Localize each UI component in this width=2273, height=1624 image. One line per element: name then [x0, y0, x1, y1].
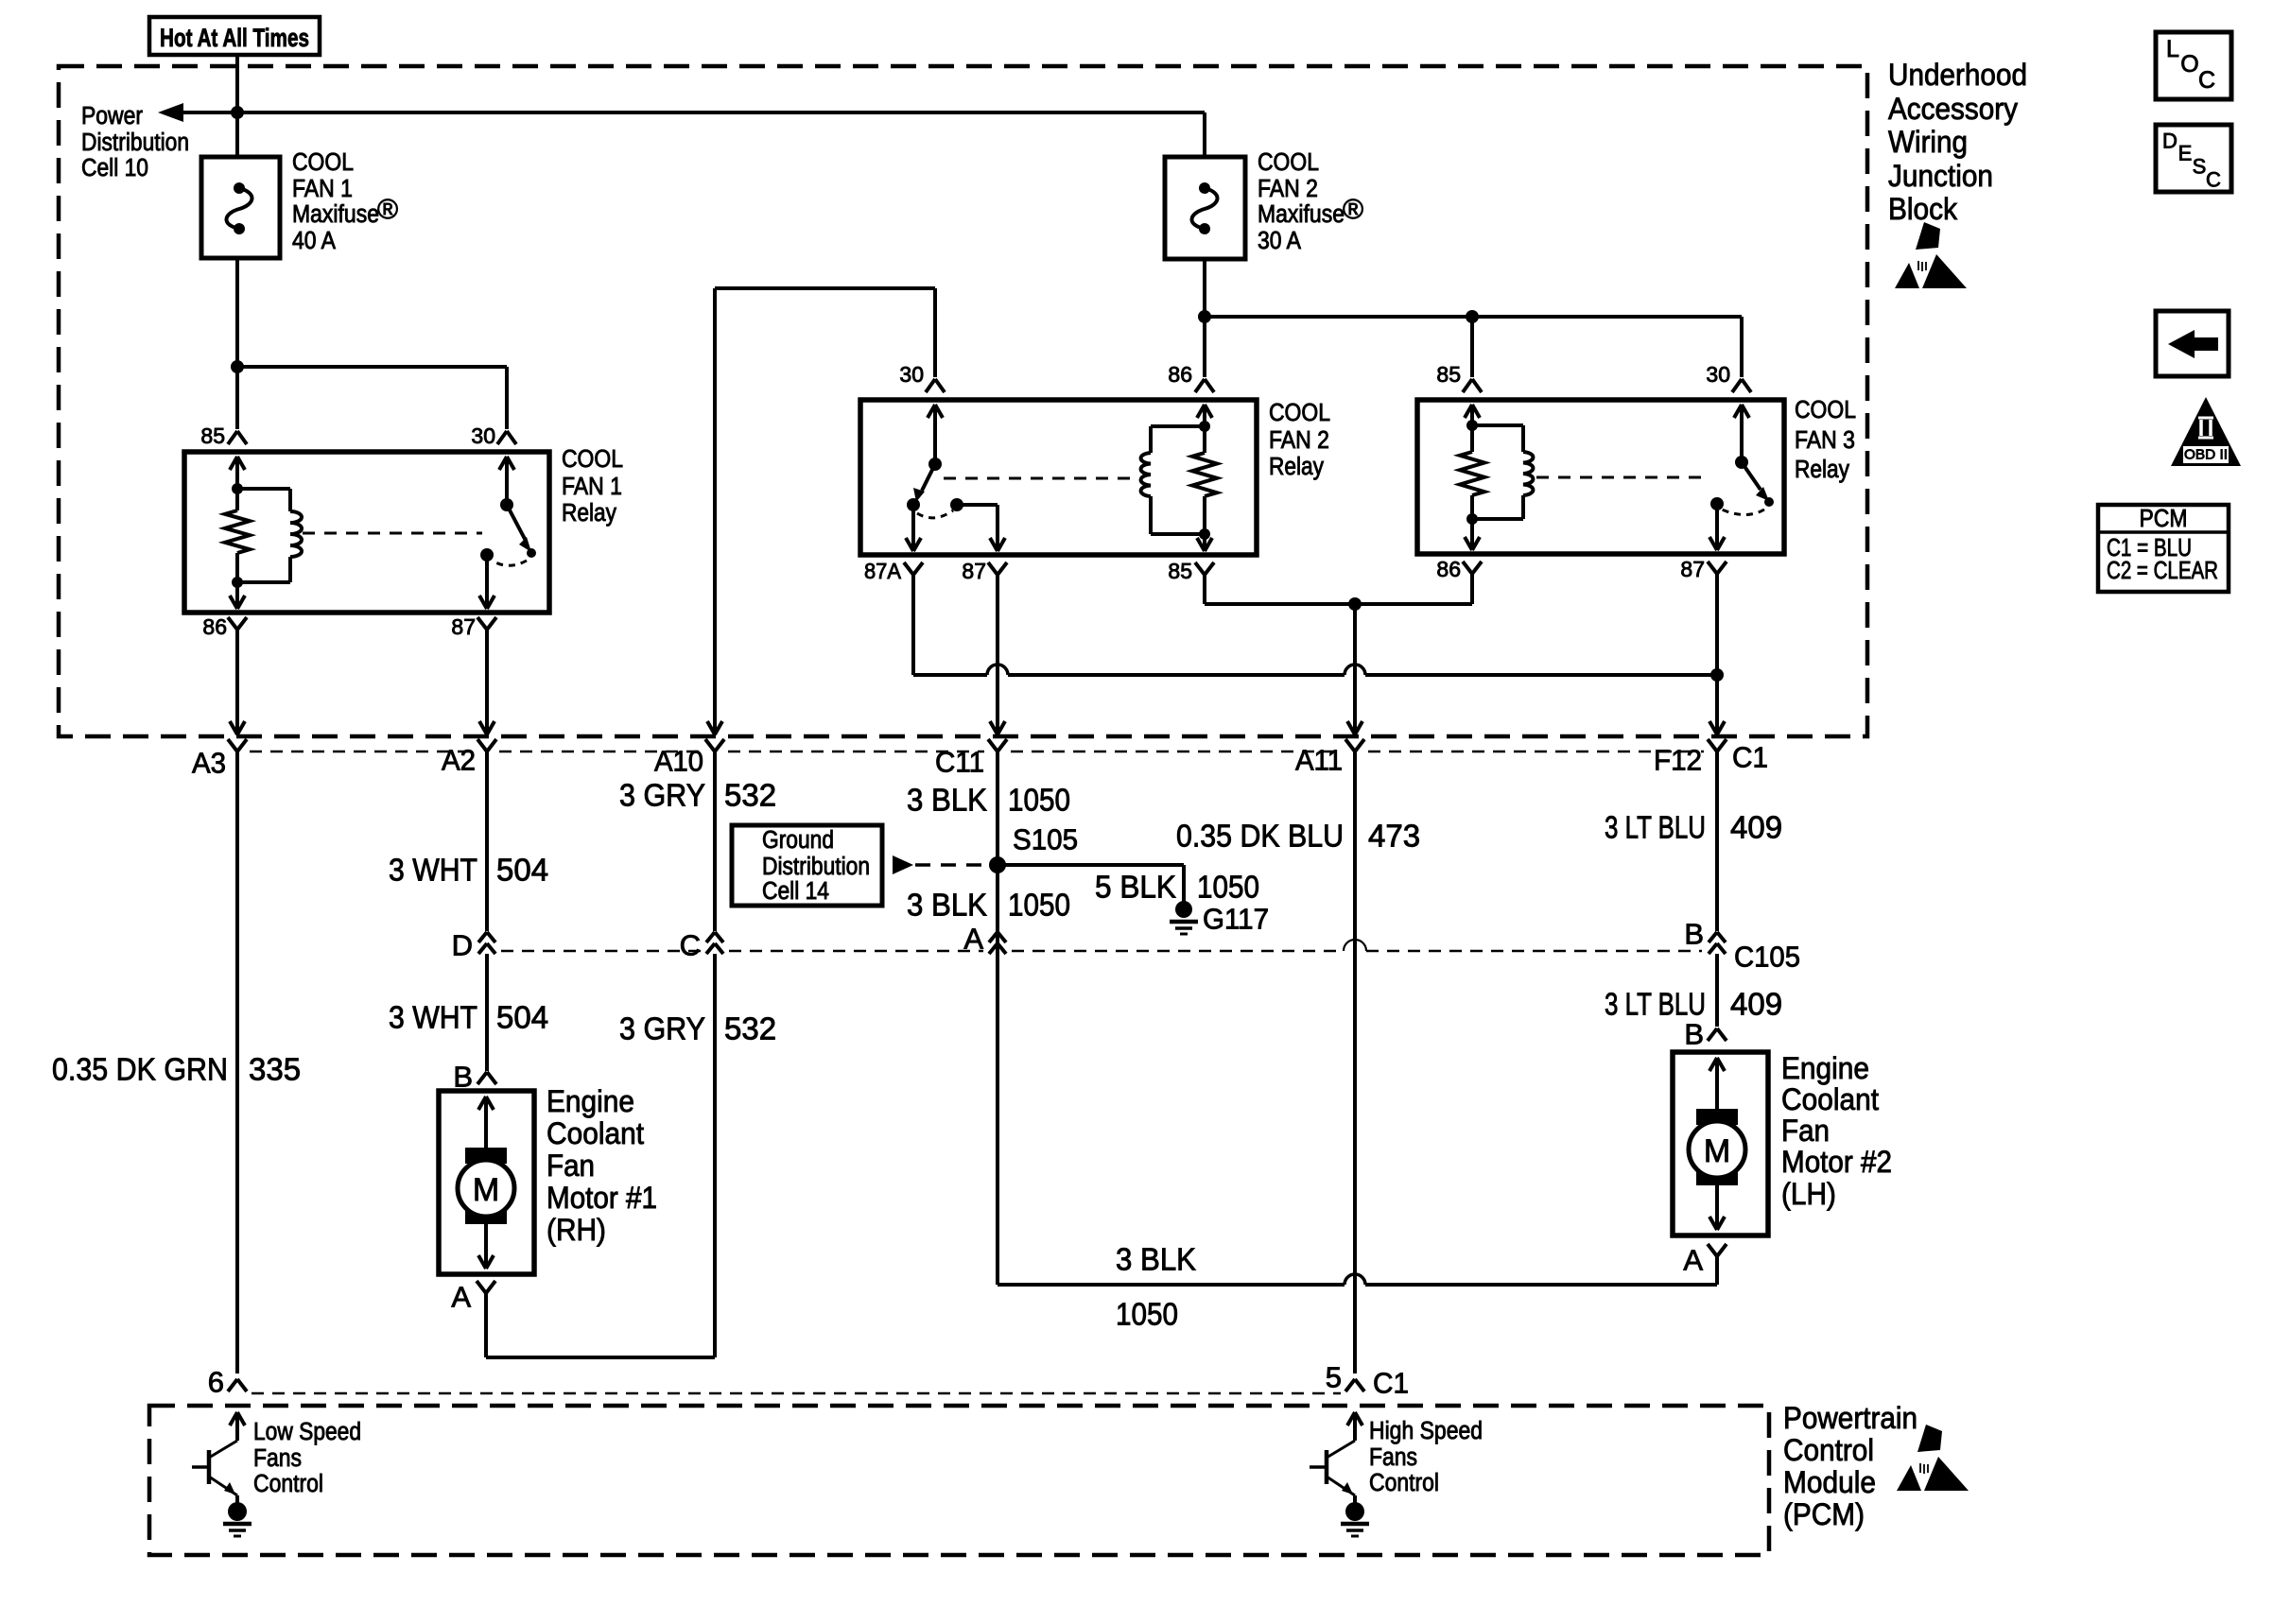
node: power distribution tap junction: [231, 106, 244, 119]
svg-text:Control: Control: [253, 1471, 323, 1497]
wire: fan 1 return line down to A10: [707, 288, 722, 734]
svg-text:®: ®: [1343, 195, 1363, 226]
relay K1 switch armature from pin 30: [494, 457, 536, 565]
svg-text:(LH): (LH): [1781, 1177, 1836, 1211]
label: Low Speed Fans Control: [253, 1419, 361, 1497]
svg-text:Cell 10: Cell 10: [81, 155, 148, 181]
icon: LOC reference box: [2156, 32, 2231, 99]
svg-text:L: L: [2166, 36, 2179, 62]
relay K3 contact to pin 87: [1709, 497, 1725, 550]
svg-text:532: 532: [724, 778, 776, 813]
svg-text:3 BLK: 3 BLK: [907, 888, 987, 923]
svg-text:504: 504: [496, 853, 548, 888]
relay K3 coil-to-armature dashed link: [1536, 476, 1707, 479]
svg-text:(PCM): (PCM): [1783, 1497, 1865, 1531]
svg-text:PCM: PCM: [2140, 506, 2188, 532]
icon: OBD II triangle: [2171, 397, 2241, 466]
svg-text:M: M: [1704, 1133, 1730, 1169]
dashed reference arrow to splice S105: [893, 855, 987, 874]
wire: feed to cool fan 2 maxifuse: [237, 112, 1205, 157]
wire: branch arrow to power distribution cell 10: [158, 103, 237, 122]
wire: 3 BLK 1050 ground leg from C11 through S105: [996, 752, 999, 1285]
pin 87A of relay K2: [864, 559, 923, 583]
relay K3: COOL FAN 3 Relay box: [1417, 400, 1784, 554]
wire: 3 GRY 532 from A10 to connector C: [713, 752, 717, 931]
svg-text:Fan: Fan: [1781, 1114, 1830, 1148]
splice S105: [989, 823, 1078, 874]
svg-text:Ground: Ground: [762, 827, 834, 854]
transistor Q2: high speed fans control driver: [1310, 1412, 1362, 1503]
svg-text:A: A: [1683, 1244, 1703, 1277]
wire: relay 1 pin 86 down to A3: [230, 630, 245, 734]
transistor Q1: low speed fans control driver: [192, 1412, 245, 1503]
connector pin A3: [192, 739, 247, 780]
power label: Hot At All Times: [149, 17, 320, 55]
relay K1 coil resistor branch: [225, 457, 250, 588]
svg-text:COOL: COOL: [292, 149, 354, 176]
svg-text:335: 335: [249, 1052, 301, 1087]
svg-text:30: 30: [471, 423, 495, 448]
fuse F2: COOL FAN 2 Maxifuse 30 A: [1165, 157, 1245, 259]
inline connector C: [680, 929, 723, 962]
pin 87 of relay K2: [962, 559, 1007, 583]
wire: high speed line from tap down to A11: [1347, 604, 1362, 734]
svg-text:COOL: COOL: [1258, 149, 1319, 176]
relay K2 contact 87A: [906, 498, 921, 551]
svg-text:A: A: [451, 1281, 471, 1314]
wire: 3 BLK 1050 rail from S105 leg to motor 2 pin A: [998, 1274, 1717, 1285]
label: Powertrain Control Module (PCM): [1783, 1401, 1917, 1531]
svg-text:S105: S105: [1013, 823, 1078, 856]
wire: 5 BLK 1050 branch to ground G117: [998, 865, 1184, 902]
pin 86 of relay K2: [1168, 362, 1214, 392]
label: High Speed Fans Control: [1369, 1418, 1483, 1496]
svg-text:6: 6: [208, 1366, 224, 1399]
connector pin A11: [1295, 739, 1364, 777]
wire: 3 GRY 532 from C down around to motor 1 pin A: [486, 954, 715, 1357]
svg-text:Distribution: Distribution: [81, 130, 189, 156]
pin 85 of relay K1: [200, 423, 247, 448]
node: splice feeding relay 1 pin 30: [231, 360, 244, 373]
svg-text:S: S: [2193, 155, 2207, 179]
svg-text:(RH): (RH): [547, 1213, 606, 1247]
label: Power Distribution Cell 10: [81, 103, 189, 181]
svg-text:C11: C11: [935, 746, 984, 779]
wire label: 5 BLK 1050: [1095, 870, 1259, 905]
connector pin B / C105: [1684, 918, 1800, 974]
label: Underhood Accessory Wiring Junction Block: [1888, 58, 2027, 226]
svg-text:High Speed: High Speed: [1369, 1418, 1483, 1444]
wire: 3 WHT 504 from A2 to connector D: [485, 752, 489, 931]
wire: branch to relay 1 pin 30: [237, 367, 507, 429]
relay K3 coil: [1472, 425, 1533, 519]
svg-text:COOL: COOL: [1269, 400, 1330, 426]
svg-text:D: D: [452, 929, 473, 962]
wire label: 3 BLK 1050 upper: [907, 783, 1070, 818]
relay K1 coil: [237, 489, 302, 582]
svg-text:1050: 1050: [1008, 783, 1070, 818]
wire: 3 WHT 504 from D to motor 1 pin B: [485, 954, 489, 1071]
svg-text:409: 409: [1730, 987, 1782, 1022]
svg-text:A3: A3: [192, 747, 226, 780]
legend: PCM connector colors: [2098, 505, 2229, 592]
wire label: 3 GRY 532 upper: [619, 778, 776, 813]
svg-text:40 A: 40 A: [292, 228, 336, 254]
svg-text:FAN 1: FAN 1: [562, 474, 622, 500]
svg-text:Control: Control: [1369, 1470, 1439, 1496]
svg-text:Relay: Relay: [1795, 457, 1849, 483]
connector pin A of motor 1: [451, 1281, 495, 1314]
pin 5 of PCM connector C1: [1326, 1361, 1409, 1400]
connector pin A10: [654, 739, 724, 778]
svg-text:86: 86: [1168, 362, 1192, 387]
motor M1: Engine Coolant Fan Motor 1: [439, 1091, 534, 1274]
wire label: 3 LT BLU 409 lower: [1605, 987, 1782, 1022]
pin 30 of relay K1: [471, 423, 516, 448]
wire: relay 2 87A rail over to relay 3 pin 87: [913, 574, 1717, 675]
connector pin A2: [442, 739, 496, 777]
svg-text:FAN 2: FAN 2: [1258, 176, 1318, 202]
connector pin C11: [935, 739, 1007, 779]
svg-text:COOL: COOL: [562, 446, 623, 473]
svg-text:3 LT BLU: 3 LT BLU: [1605, 987, 1706, 1022]
relay K2 switch armature from pin 30: [913, 405, 953, 518]
wire label: 3 BLK 1050 rail: [1116, 1242, 1196, 1332]
wire: 3 LT BLU 409 from C105 to motor 2 pin B: [1715, 954, 1719, 1027]
wire: 0.35 DK BLU 473 high speed control: [1353, 752, 1357, 1373]
svg-text:Accessory: Accessory: [1888, 92, 2019, 126]
svg-text:87: 87: [1680, 557, 1705, 581]
ground: PCM low speed driver emitter: [223, 1502, 252, 1536]
svg-text:Junction: Junction: [1888, 159, 1993, 193]
svg-text:Powertrain: Powertrain: [1783, 1401, 1917, 1435]
PCM connector row dashes: [252, 1392, 1341, 1395]
relay K3 switch armature from pin 30: [1722, 405, 1774, 515]
node: splice below fuse 2: [1198, 310, 1211, 323]
label: motor M2 name: [1781, 1051, 1892, 1211]
label: fuse F1 name and rating: [292, 149, 398, 254]
svg-text:86: 86: [1436, 557, 1461, 581]
relay K2 coil: [1141, 405, 1212, 534]
svg-text:30: 30: [1706, 362, 1730, 387]
powertrain control module dashed border: [149, 1406, 1769, 1555]
wire label: 0.35 DK GRN 335: [52, 1052, 301, 1087]
wire: battery feed from Hot At All Times to fuse 1: [235, 55, 239, 157]
svg-text:85: 85: [1168, 559, 1192, 583]
wire: relay 2 pin 85 to relay 3 pin 86: [1205, 574, 1472, 604]
wire label: 3 WHT 504 lower: [389, 1000, 548, 1035]
svg-text:87: 87: [962, 559, 986, 583]
svg-text:Relay: Relay: [1269, 454, 1324, 480]
wire: 3 LT BLU 409 from F12 to connector C105: [1715, 752, 1719, 931]
svg-text:Engine: Engine: [547, 1084, 634, 1118]
relay K1 contact to pin 87: [479, 548, 495, 609]
icon: ESD handling symbol at junction block: [1895, 222, 1967, 288]
ground: PCM high speed driver emitter: [1341, 1502, 1369, 1536]
svg-text:3 WHT: 3 WHT: [389, 1000, 477, 1035]
connector pin B of motor 2: [1684, 1018, 1726, 1051]
svg-text:Motor #2: Motor #2: [1781, 1145, 1892, 1179]
svg-text:3 GRY: 3 GRY: [619, 778, 705, 813]
label: fuse F2 name and rating: [1258, 149, 1363, 254]
relay K3 coil resistor branch: [1460, 405, 1484, 550]
svg-text:C: C: [2206, 168, 2221, 192]
svg-text:Coolant: Coolant: [1781, 1082, 1879, 1116]
svg-text:OBD II: OBD II: [2184, 447, 2228, 463]
icon: DESC reference box: [2156, 125, 2231, 192]
label: motor M1 name: [547, 1084, 657, 1247]
svg-text:3 BLK: 3 BLK: [1116, 1242, 1196, 1277]
wire label: 3 GRY 532 lower: [619, 1011, 776, 1046]
wire label: 3 LT BLU 409 upper: [1605, 810, 1782, 845]
svg-text:409: 409: [1730, 810, 1782, 845]
svg-text:D: D: [2162, 130, 2178, 153]
wire label: 0.35 DK BLU 473: [1176, 819, 1420, 854]
svg-text:C2 = CLEAR: C2 = CLEAR: [2107, 558, 2218, 584]
svg-text:85: 85: [1436, 362, 1461, 387]
label: relay K3 name: [1795, 397, 1856, 483]
svg-text:3 LT BLU: 3 LT BLU: [1605, 810, 1706, 845]
pin 30 of relay K3: [1706, 362, 1751, 392]
svg-text:Maxifuse: Maxifuse: [292, 201, 379, 228]
svg-text:86: 86: [202, 614, 227, 639]
svg-text:3 WHT: 3 WHT: [389, 853, 477, 888]
wire label: 3 WHT 504 upper: [389, 853, 548, 888]
svg-text:FAN 1: FAN 1: [292, 176, 353, 202]
label: relay K2 name: [1269, 400, 1330, 480]
svg-text:Module: Module: [1783, 1465, 1876, 1499]
svg-text:A10: A10: [654, 745, 703, 778]
pin 86 of relay K3: [1436, 557, 1482, 581]
svg-text:B: B: [1684, 1018, 1704, 1051]
underhood accessory wiring junction block dashed border: [59, 66, 1867, 736]
relay K2 coil resistor branch: [1192, 426, 1217, 551]
svg-text:M: M: [473, 1172, 499, 1208]
svg-text:Coolant: Coolant: [547, 1116, 644, 1150]
connector pin B of motor 1: [453, 1061, 496, 1094]
pin 6 of PCM connector: [208, 1366, 247, 1399]
wire: relay 2 pin 30 feed from fan 1 return line: [715, 288, 935, 377]
relay K2 coil-to-armature dashed link: [944, 477, 1139, 480]
label: relay K1 name: [562, 446, 623, 527]
svg-text:0.35 DK GRN: 0.35 DK GRN: [52, 1052, 228, 1087]
svg-text:Fans: Fans: [253, 1445, 302, 1472]
svg-text:B: B: [1684, 918, 1704, 951]
svg-text:3 GRY: 3 GRY: [619, 1011, 705, 1046]
svg-text:0.35 DK BLU: 0.35 DK BLU: [1176, 819, 1344, 854]
svg-text:30 A: 30 A: [1258, 228, 1301, 254]
connector row: junction block outlet dashes: [250, 751, 1704, 753]
svg-text:C: C: [680, 929, 701, 962]
wire: fuse 2 output to relay 2 pin 86: [1203, 259, 1206, 377]
relay K2: COOL FAN 2 Relay box: [860, 400, 1257, 555]
svg-text:C1: C1: [1373, 1367, 1409, 1400]
svg-text:®: ®: [377, 195, 398, 226]
svg-text:FAN 3: FAN 3: [1795, 427, 1855, 454]
svg-text:Maxifuse: Maxifuse: [1258, 201, 1345, 228]
pin 85 of relay K2: [1168, 559, 1214, 583]
svg-text:Cell 14: Cell 14: [762, 878, 829, 905]
svg-text:Underhood: Underhood: [1888, 58, 2027, 92]
pin 30 of relay K2: [899, 362, 945, 392]
svg-text:C105: C105: [1734, 941, 1800, 974]
wire: 0.35 DK GRN 335 low speed control: [235, 752, 239, 1373]
svg-text:Block: Block: [1888, 192, 1958, 226]
wire: fuse 1 output to relay 1 pin 85: [235, 258, 239, 429]
svg-text:Wiring: Wiring: [1888, 125, 1968, 159]
svg-text:1050: 1050: [1197, 870, 1259, 905]
svg-text:COOL: COOL: [1795, 397, 1856, 423]
svg-text:504: 504: [496, 1000, 548, 1035]
svg-text:O: O: [2180, 51, 2198, 78]
svg-text:Control: Control: [1783, 1433, 1874, 1467]
svg-text:G117: G117: [1203, 903, 1269, 936]
svg-text:532: 532: [724, 1011, 776, 1046]
node: tap to PCM high speed fan control: [1348, 597, 1362, 611]
svg-text:30: 30: [899, 362, 924, 387]
icon: ESD handling symbol at PCM: [1897, 1425, 1969, 1491]
svg-text:Engine: Engine: [1781, 1051, 1869, 1085]
svg-text:A2: A2: [442, 744, 476, 777]
connector pin A of motor 2: [1683, 1244, 1726, 1286]
svg-text:473: 473: [1368, 819, 1420, 854]
svg-text:Low Speed: Low Speed: [253, 1419, 361, 1445]
connector pin F12 / C1: [1654, 739, 1768, 777]
svg-text:Power: Power: [81, 103, 143, 130]
wire: relay 3 pin 87 down to F12: [1709, 574, 1725, 734]
ground distribution callout box: [732, 825, 882, 906]
node: tap for relay 3 pin 85: [1466, 310, 1479, 323]
wire label: 3 BLK 1050 lower: [907, 888, 1070, 923]
inline connector A: [963, 923, 1006, 956]
node: junction of 87A rail with relay 3 pin 87 drop: [1710, 668, 1724, 682]
inline connector D: [452, 929, 495, 962]
motor M2: Engine Coolant Fan Motor 2: [1673, 1052, 1768, 1235]
svg-text:Hot At All Times: Hot At All Times: [160, 24, 309, 52]
icon: back arrow box: [2156, 311, 2229, 376]
svg-text:5 BLK: 5 BLK: [1095, 870, 1176, 905]
svg-text:Distribution: Distribution: [762, 854, 870, 880]
svg-text:87: 87: [451, 614, 476, 639]
relay K2 contact 87: [950, 498, 1005, 551]
svg-text:Fans: Fans: [1369, 1444, 1417, 1471]
wire: relay 2 pin 87 down to C11: [990, 574, 1005, 734]
pin 85 of relay K3: [1436, 362, 1482, 392]
svg-text:Fan: Fan: [547, 1149, 595, 1183]
wire: relay 1 pin 87 down to A2: [479, 630, 495, 734]
pin 86 of relay K1: [202, 614, 247, 639]
svg-text:Motor #1: Motor #1: [547, 1181, 657, 1215]
svg-text:Relay: Relay: [562, 500, 616, 527]
relay K1 coil return to pin 86: [230, 582, 245, 609]
svg-text:1050: 1050: [1008, 888, 1070, 923]
connector C105 inline row dashes: [501, 940, 1702, 951]
svg-text:1050: 1050: [1116, 1297, 1178, 1332]
wire: bus from fuse 2 to relay 3 pins 85 and 30: [1205, 317, 1742, 377]
fuse F1: COOL FAN 1 Maxifuse 40 A: [201, 157, 280, 258]
pin 87 of relay K1: [451, 614, 496, 639]
svg-text:C: C: [2198, 67, 2215, 94]
svg-text:FAN 2: FAN 2: [1269, 427, 1329, 454]
svg-text:5: 5: [1326, 1361, 1342, 1394]
svg-text:3 BLK: 3 BLK: [907, 783, 987, 818]
svg-text:A11: A11: [1295, 744, 1343, 777]
svg-text:85: 85: [200, 423, 225, 448]
svg-text:87A: 87A: [864, 559, 902, 583]
pin 87 of relay K3: [1680, 557, 1726, 581]
svg-text:E: E: [2178, 142, 2193, 165]
svg-text:C1: C1: [1732, 741, 1768, 774]
svg-text:F12: F12: [1654, 744, 1702, 777]
ground G117: [1170, 901, 1269, 936]
relay K1: COOL FAN 1 Relay box: [184, 452, 549, 613]
relay K1 coil-to-armature dashed link: [303, 532, 482, 535]
